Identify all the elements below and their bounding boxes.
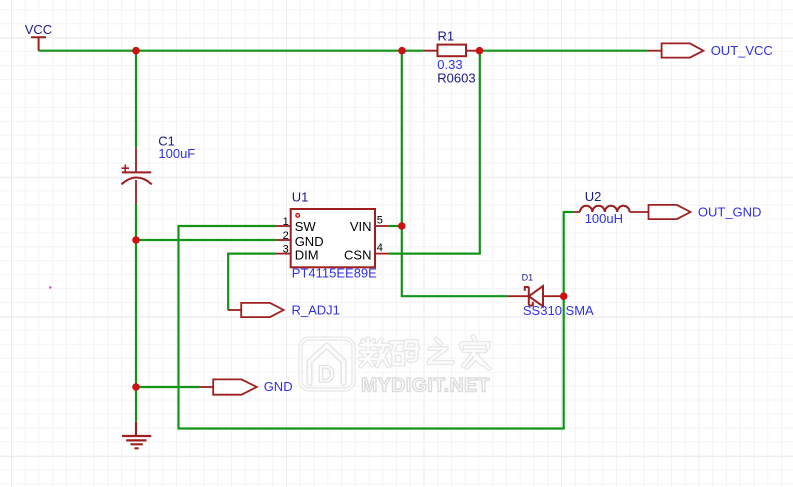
svg-text:CSN: CSN [344,248,371,263]
svg-text:DIM: DIM [295,248,319,263]
svg-text:PT4115EE89E: PT4115EE89E [292,266,377,281]
pin 1 stub [276,225,291,227]
junction node D1 [560,292,568,300]
wire DIM net to R_ADJ1 [228,254,276,310]
svg-text:1: 1 [283,216,289,228]
svg-text:MYDIGIT.NET: MYDIGIT.NET [361,375,490,397]
power flag VCC [31,37,46,51]
svg-text:GND: GND [264,379,293,394]
svg-text:VCC: VCC [25,22,52,37]
svg-text:D1: D1 [522,272,534,282]
junction node GND-port [132,383,140,391]
watermark chinese text 数码之家 [360,337,489,369]
wire VIN vertical from top wire down to D1 row [402,51,508,297]
wire CSN net to R1 right vertical [389,51,480,254]
wire GND port branch [136,386,200,388]
svg-text:R1: R1 [438,28,455,43]
svg-text:R_ADJ1: R_ADJ1 [292,303,340,318]
svg-text:5: 5 [377,215,383,227]
svg-text:D: D [318,361,335,388]
junction node VIN [398,222,406,230]
svg-text:VIN: VIN [350,219,372,234]
pin 2 stub [276,239,291,241]
pin 5 stub [375,225,389,227]
svg-text:U1: U1 [292,190,309,205]
wire top right of R1 to OUT_VCC [480,50,648,52]
svg-text:3: 3 [283,244,289,256]
pin 4 stub [375,253,389,255]
wire VIN pin stub to junction [389,225,402,227]
origin marker [49,286,52,289]
watermark logo box [301,339,354,390]
svg-text:U2: U2 [585,189,602,204]
pin 1 dot [296,214,300,218]
junction node GND-C1 [132,236,140,244]
netport GND [200,379,257,394]
ground symbol [122,422,151,448]
junction node R1 right [476,47,484,55]
svg-text:100uF: 100uF [158,146,195,161]
inductor U2 [573,206,649,212]
wire VCC top horizontal [39,51,648,429]
netport OUT_VCC [648,43,704,57]
diode D1 schottky [508,286,561,306]
svg-text:4: 4 [377,242,383,254]
svg-text:2: 2 [283,230,289,242]
svg-text:SW: SW [295,219,317,234]
svg-text:R0603: R0603 [437,71,475,86]
junction node top-left [132,47,140,55]
svg-text:SS310 SMA: SS310 SMA [523,303,594,318]
capacitor C1 [121,148,151,204]
netport R_ADJ1 [228,303,284,317]
svg-text:GND: GND [295,234,324,249]
wire C1 top vertical [135,51,137,148]
wire GND net horizontal to U1 pin2 [136,239,276,241]
IC U1 PT4115 [276,209,389,267]
wire C1 bottom vertical [135,204,137,422]
netport OUT_GND [649,205,691,219]
junction node R1 left [398,47,406,55]
svg-text:OUT_GND: OUT_GND [698,205,762,220]
wire SW net: pin1 left, down, bottom run, up to D1/U2 [179,212,574,429]
svg-text:100uH: 100uH [585,211,623,226]
resistor R1 [424,45,480,57]
pin 3 stub [276,253,291,255]
svg-text:OUT_VCC: OUT_VCC [711,43,773,58]
